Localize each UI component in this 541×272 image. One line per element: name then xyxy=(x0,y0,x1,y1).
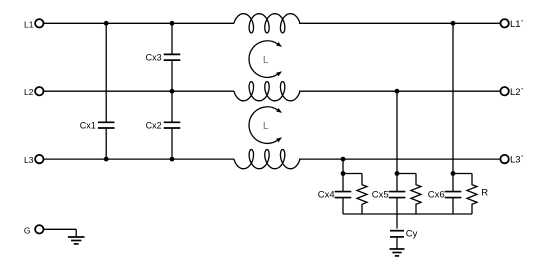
resistor R (parallel with Cx6) xyxy=(467,174,488,215)
wire L3 line left segment xyxy=(44,158,235,160)
svg-text:G: G xyxy=(24,225,31,235)
node junction L1/Cx6 xyxy=(451,21,456,26)
svg-text:Cx6: Cx6 xyxy=(428,189,445,200)
capacitor Cy xyxy=(390,229,418,240)
wire L3 line right segment xyxy=(299,158,500,160)
capacitor Cx1 xyxy=(80,120,115,130)
inductor winding L1 xyxy=(234,14,300,33)
svg-text:L1: L1 xyxy=(24,19,34,29)
inductor winding L2 xyxy=(234,82,300,101)
wire Cy tap xyxy=(396,214,398,229)
terminal L1' xyxy=(500,19,523,30)
wire Cx1 branch vertical (L1 to L3) xyxy=(105,23,107,159)
node junction L2/Cx3/Cx2 xyxy=(170,89,175,94)
node junction L3/Cx1 xyxy=(104,157,109,162)
wire Cx5 branch vertical (L2 to bus) xyxy=(396,91,398,214)
svg-text:L1`: L1` xyxy=(510,19,524,30)
svg-text:Cx1: Cx1 xyxy=(80,120,96,130)
svg-text:L: L xyxy=(263,120,269,132)
terminal L1 xyxy=(24,19,43,29)
terminal L3 xyxy=(24,155,43,165)
resistor (parallel with Cx5) xyxy=(411,174,421,215)
svg-text:Cy: Cy xyxy=(406,229,418,240)
capacitor Cx5 xyxy=(372,189,406,200)
svg-text:Cx2: Cx2 xyxy=(146,120,162,130)
wire Cy to ground xyxy=(396,238,398,249)
wire Cx6 branch vertical (L1 to bus) xyxy=(452,23,454,214)
wire L2 line left segment xyxy=(44,90,235,92)
wire resistor branch 2 top xyxy=(397,173,416,175)
wire bottom bus xyxy=(343,213,472,215)
node junction L1/Cx3 xyxy=(170,21,175,26)
node junction Cx4/resistor split xyxy=(341,171,346,176)
svg-text:L: L xyxy=(263,54,269,66)
svg-text:R: R xyxy=(481,187,488,198)
node junction L3/Cx2 xyxy=(170,157,175,162)
inductor winding L3 xyxy=(234,150,300,169)
svg-text:L3`: L3` xyxy=(510,155,524,166)
node junction L3/Cx4 xyxy=(341,157,346,162)
wire L1 line right segment xyxy=(299,22,500,24)
ground (Cy) xyxy=(390,249,405,256)
wire Cx3/Cx2 branch vertical (L1 to L3) xyxy=(171,23,173,159)
terminal L3' xyxy=(500,155,523,166)
svg-text:Cx3: Cx3 xyxy=(146,53,162,63)
node junction Cx5/resistor split xyxy=(395,171,400,176)
capacitor Cx6 xyxy=(428,189,462,200)
wire Cx4 branch vertical (L3 to bus) xyxy=(342,159,344,214)
inductor core arrow L (bottom) xyxy=(249,107,282,144)
capacitor Cx4 xyxy=(318,189,352,200)
resistor (parallel with Cx4) xyxy=(357,174,367,215)
svg-text:L2`: L2` xyxy=(510,87,524,98)
terminal L2' xyxy=(500,87,523,98)
capacitor Cx3 xyxy=(146,53,181,63)
terminal L2 xyxy=(24,87,43,97)
wire L1 line left segment xyxy=(44,22,235,24)
node junction L1/Cx1 xyxy=(104,21,109,26)
svg-text:Cx4: Cx4 xyxy=(318,189,335,200)
svg-text:L2: L2 xyxy=(24,87,34,97)
wire G terminal to ground xyxy=(44,229,77,237)
node junction L2/Cx5 xyxy=(395,89,400,94)
ground (G) xyxy=(68,237,85,244)
capacitor Cx2 xyxy=(146,120,181,130)
node junction Cx6/resistor split xyxy=(451,171,456,176)
wire L2 line right segment xyxy=(299,90,500,92)
svg-text:L3: L3 xyxy=(24,155,34,165)
terminal G xyxy=(24,225,44,235)
svg-text:Cx5: Cx5 xyxy=(372,189,389,200)
wire resistor branch 3 top xyxy=(453,173,472,175)
inductor core arrow L (top) xyxy=(249,41,282,78)
wire resistor branch 1 top xyxy=(343,173,362,175)
